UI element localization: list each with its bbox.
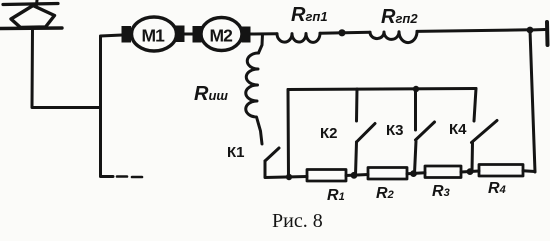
junction dot top bus	[413, 86, 419, 92]
switch K4 lower wire	[471, 143, 475, 172]
junction dot	[338, 29, 345, 36]
svg-text:К4: К4	[449, 121, 467, 138]
svg-text:Rиш: Rиш	[194, 83, 228, 105]
resistor R2	[368, 168, 407, 180]
resistor Rish coil	[246, 53, 262, 144]
switch K2 lower wire	[356, 142, 357, 175]
switch K3 upper wire	[414, 89, 417, 130]
switch K2 upper wire	[355, 89, 359, 121]
pantograph body	[11, 6, 55, 28]
motor M2	[201, 18, 242, 51]
svg-text:R3: R3	[432, 183, 450, 200]
wire right vertical	[530, 30, 535, 172]
dashed wire	[117, 175, 142, 178]
wire M1-M2	[185, 33, 194, 36]
switch K4 upper wire	[474, 89, 476, 122]
wire left horizontal	[32, 106, 100, 109]
pantograph top tick	[35, 0, 39, 5]
wire R1-R2	[346, 175, 368, 176]
junction dot right	[527, 27, 534, 34]
resistor Rgp1 coil	[277, 33, 320, 42]
svg-text:К3: К3	[386, 122, 404, 139]
switch K1 lower wire	[264, 161, 267, 177]
svg-text:R1: R1	[327, 187, 345, 204]
resistor R3	[425, 166, 461, 178]
svg-text:Rгп2: Rгп2	[381, 6, 418, 28]
motor M1	[132, 17, 177, 51]
svg-text:К2: К2	[320, 125, 338, 142]
K-box left vertical wire	[287, 90, 291, 178]
svg-text:Rгп1: Rгп1	[291, 4, 328, 26]
wire to right corner	[417, 30, 530, 32]
wire pantograph down	[31, 29, 35, 108]
wire bottom-left stub	[101, 175, 114, 178]
motor M2 brushes	[193, 26, 251, 43]
junction dot R1-R2	[351, 172, 358, 179]
svg-text:К1: К1	[227, 144, 245, 161]
resistor R4	[479, 165, 523, 177]
switch K4 blade	[472, 121, 498, 143]
svg-text:М2: М2	[210, 26, 234, 46]
junction dot R3-R4	[467, 168, 474, 175]
resistor R1	[307, 170, 346, 182]
switch K2 blade	[357, 124, 376, 143]
pantograph base line	[0, 26, 62, 30]
switch K3 lower wire	[415, 141, 417, 174]
wire R3-R4	[461, 171, 479, 172]
node: junction to Rish	[259, 34, 263, 53]
wire between coils	[320, 32, 370, 33]
terminal bar	[545, 22, 550, 45]
wire R4 to right corner	[523, 169, 535, 173]
wire left vertical	[99, 37, 102, 177]
junction dot bus-left	[286, 174, 292, 180]
wire to M1	[101, 35, 123, 36]
motor M1 brushes	[122, 26, 185, 43]
wire M2 to coil Rgp1	[251, 32, 278, 35]
svg-text:R2: R2	[376, 185, 394, 202]
svg-text:М1: М1	[142, 26, 166, 46]
K-box top bus	[288, 89, 476, 90]
svg-text:Рис. 8: Рис. 8	[272, 210, 323, 232]
wire R2-R3	[407, 173, 425, 174]
junction dot R2-R3	[410, 170, 417, 177]
wire to terminal	[530, 28, 545, 32]
bottom bus left	[265, 177, 307, 178]
resistor Rgp2 coil	[370, 31, 417, 42]
switch K3 blade	[416, 122, 435, 140]
switch K1 blade	[265, 148, 279, 161]
svg-text:R4: R4	[488, 180, 506, 197]
pantograph contact wire line	[3, 4, 58, 5]
